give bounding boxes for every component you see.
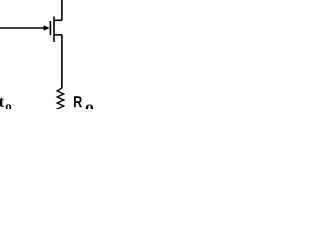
transistor Q1: [44, 17, 62, 43]
label partial subscript o bottom-left: [6, 104, 12, 110]
resistor Ro: [57, 88, 64, 112]
wire drain up: [61, 0, 63, 20]
label R subscript o: [86, 104, 93, 112]
wire source down: [61, 35, 63, 88]
wire gate input: [0, 27, 45, 29]
label R: [74, 96, 82, 107]
label partial t bottom-left: [0, 98, 4, 107]
